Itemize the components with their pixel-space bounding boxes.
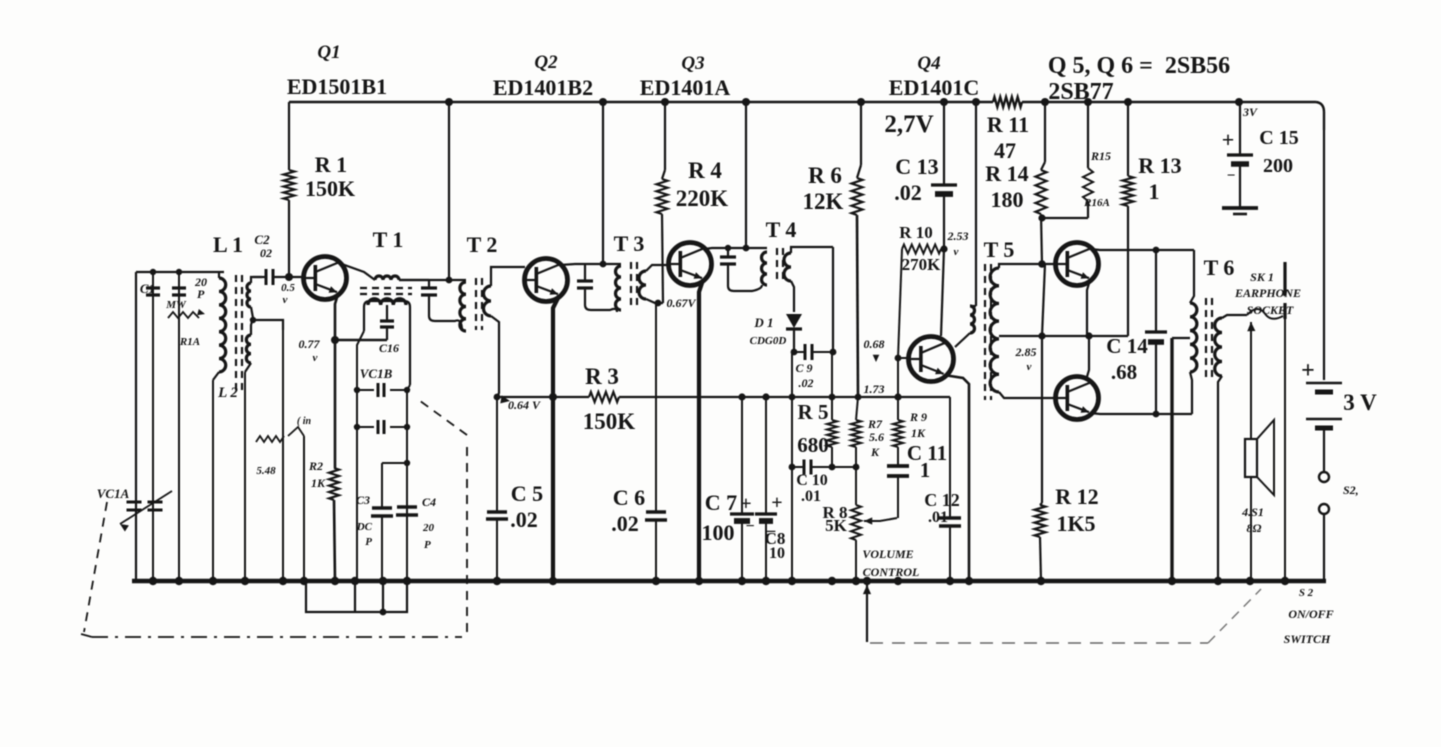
top supply bus	[289, 101, 993, 103]
wire T2 sec to C5	[494, 394, 501, 401]
battery 3V	[1323, 130, 1325, 380]
transistor Q1	[304, 257, 347, 300]
svg-text:R 6: R 6	[808, 163, 842, 188]
T6 secondary coil	[1215, 318, 1222, 376]
T6 primary coil	[1190, 250, 1194, 303]
wire R10 to Q4 base	[898, 249, 902, 358]
T5 center tap	[999, 335, 1042, 337]
svg-text:SK 1: SK 1	[1250, 270, 1274, 284]
svg-text:R 1: R 1	[315, 152, 347, 177]
resistor R6 branch	[860, 102, 862, 165]
wire R13 to center tap	[1042, 335, 1128, 337]
Q5 emitter wire	[1087, 280, 1090, 336]
svg-text:T 1: T 1	[373, 227, 404, 252]
svg-text:S 2: S 2	[1299, 587, 1314, 599]
svg-text:3V: 3V	[1242, 105, 1258, 119]
resistor R4 branch	[664, 102, 666, 170]
svg-text:−: −	[1227, 168, 1236, 184]
svg-text:R7: R7	[867, 417, 883, 431]
svg-text:.01: .01	[801, 488, 821, 505]
volume line (R3 output)	[497, 396, 589, 398]
wire bus to T3	[602, 102, 604, 264]
resistor R11 (in bus)	[993, 97, 1022, 107]
svg-text:T 4: T 4	[766, 217, 797, 242]
wire bus to T5 primary	[975, 102, 977, 306]
svg-text:ED1501B1: ED1501B1	[287, 74, 387, 99]
resistor R1	[284, 170, 295, 200]
svg-text:12K: 12K	[803, 189, 844, 214]
svg-text:v: v	[1027, 361, 1032, 373]
T3 primary coil	[616, 266, 622, 310]
svg-text:Q3: Q3	[681, 53, 704, 74]
svg-text:D 1: D 1	[753, 315, 773, 330]
svg-text:C 15: C 15	[1259, 127, 1298, 149]
Q1 emitter tap wire	[335, 339, 387, 342]
capacitor C4	[397, 505, 417, 508]
resistor R15 (hand drawn)	[1087, 102, 1089, 168]
svg-text:0.77: 0.77	[299, 337, 321, 351]
wire bus to T4	[745, 102, 747, 248]
svg-text:SWITCH: SWITCH	[1284, 632, 1331, 646]
resistor R13 branch	[1127, 102, 1129, 176]
R8 wiper	[864, 517, 872, 524]
transistor Q3	[669, 243, 712, 286]
wire top bus to T2	[448, 102, 450, 280]
T1 secondary	[364, 301, 410, 331]
resistor R9	[893, 420, 903, 447]
wire R14 node down	[1042, 264, 1045, 336]
switch S2	[1319, 472, 1329, 482]
capacitor C5	[487, 510, 507, 513]
Q6 emitter wire	[1086, 336, 1089, 380]
svg-text:.01: .01	[928, 509, 948, 526]
T2 primary cap	[428, 280, 430, 287]
svg-text:K: K	[870, 445, 880, 459]
svg-text:EARPHONE: EARPHONE	[1234, 286, 1301, 300]
svg-text:+: +	[771, 492, 782, 514]
T3 core	[630, 262, 632, 308]
svg-text:P: P	[424, 539, 431, 551]
svg-text:R 9: R 9	[909, 410, 927, 424]
capacitor C2	[253, 276, 266, 278]
resistor R14 branch	[1044, 102, 1046, 162]
svg-text:ED1401A: ED1401A	[640, 75, 731, 100]
svg-text:1.73: 1.73	[864, 382, 885, 396]
Q1 emitter down	[335, 294, 338, 468]
svg-text:C16: C16	[379, 341, 399, 355]
wire D1 node down	[791, 352, 793, 467]
svg-text:R 5: R 5	[798, 400, 829, 424]
T5 primary coil	[970, 306, 975, 333]
transistor Q2	[525, 259, 568, 302]
T4 core	[776, 248, 778, 284]
MW tuning arrow	[168, 312, 199, 318]
transistor Q5	[1056, 243, 1099, 286]
svg-text:ON/OFF: ON/OFF	[1288, 607, 1333, 621]
svg-text:C2: C2	[254, 232, 270, 247]
svg-text:R 12: R 12	[1055, 484, 1098, 509]
T2 core	[475, 278, 477, 330]
Q4 emitter wire	[944, 375, 969, 581]
T4 secondary coil	[784, 253, 791, 281]
svg-text:.02: .02	[799, 376, 814, 390]
node bracket to C3	[382, 462, 407, 464]
svg-text:1K5: 1K5	[1056, 511, 1095, 536]
bottom ground bus	[132, 579, 1326, 584]
svg-text:C 12: C 12	[924, 490, 960, 510]
svg-text:20: 20	[422, 522, 435, 534]
svg-text:Q2: Q2	[534, 52, 558, 73]
svg-text:0.67V: 0.67V	[666, 296, 696, 310]
T6 core	[1205, 298, 1207, 382]
svg-text:R2: R2	[308, 459, 323, 473]
svg-text:100: 100	[702, 520, 735, 545]
svg-text:+: +	[1301, 358, 1315, 384]
Q5 collector wire	[1090, 249, 1156, 250]
C15 ground	[1222, 206, 1258, 210]
coil L1 secondary lower (L2)	[246, 335, 251, 363]
svg-text:C 13: C 13	[895, 154, 938, 179]
svg-text:CONTROL: CONTROL	[863, 565, 920, 579]
svg-text:200: 200	[1263, 155, 1293, 177]
svg-text:S2,: S2,	[1343, 483, 1359, 497]
svg-text:4.S1: 4.S1	[1241, 505, 1264, 519]
svg-text:2.53: 2.53	[947, 229, 969, 243]
svg-text:VOLUME: VOLUME	[862, 547, 913, 561]
capacitor C13 branch	[943, 102, 945, 184]
resistor R8 volume pot	[855, 467, 857, 505]
wire osc node to bus	[303, 436, 305, 581]
capacitor C15	[1239, 102, 1241, 154]
T4 primary coil	[762, 252, 768, 285]
Q6 collector wire	[1090, 413, 1156, 414]
resistor R5	[829, 394, 836, 401]
volume dashed linkage	[866, 581, 868, 642]
svg-text:0.68: 0.68	[864, 337, 885, 351]
capacitor C12	[949, 397, 951, 517]
svg-text:R15: R15	[1090, 149, 1111, 163]
svg-text:C 7: C 7	[705, 490, 737, 515]
svg-text:R 11: R 11	[987, 112, 1029, 137]
svg-text:47: 47	[994, 138, 1016, 163]
svg-text:T 5: T 5	[984, 237, 1015, 262]
svg-text:( in: ( in	[297, 416, 312, 427]
svg-text:T 2: T 2	[467, 232, 498, 257]
svg-text:ED1401B2: ED1401B2	[493, 75, 593, 100]
capacitor C3	[381, 463, 383, 508]
coil L1 secondary upper	[247, 283, 251, 307]
svg-text:R 4: R 4	[688, 158, 722, 183]
svg-text:v: v	[954, 246, 959, 258]
svg-text:.02: .02	[894, 180, 922, 205]
svg-text:R 13: R 13	[1138, 153, 1181, 178]
diode D1	[786, 314, 802, 328]
svg-text:P: P	[365, 536, 372, 548]
svg-text:C1: C1	[140, 281, 155, 296]
svg-text:1K: 1K	[311, 476, 326, 490]
svg-text:2.85: 2.85	[1015, 345, 1037, 359]
capacitor C7	[741, 397, 743, 513]
T6 center tap	[1172, 337, 1190, 339]
capacitor C8	[765, 397, 767, 513]
transistor Q6	[1056, 377, 1099, 420]
svg-text:CDG0D: CDG0D	[750, 335, 787, 347]
svg-text:680: 680	[797, 433, 829, 457]
resistor R2	[329, 468, 339, 500]
svg-text:1: 1	[920, 458, 931, 482]
svg-text:220K: 220K	[676, 186, 729, 211]
T2 primary coil	[460, 282, 466, 331]
wire T3 sec to C6	[655, 303, 657, 512]
T5 secondary coil	[990, 268, 999, 392]
svg-text:0.64 V: 0.64 V	[508, 398, 541, 412]
transistor Q4	[909, 337, 954, 382]
svg-text:3 V: 3 V	[1343, 390, 1377, 415]
svg-text:+: +	[1222, 127, 1235, 152]
svg-text:R 14: R 14	[985, 161, 1028, 186]
svg-text:5.48: 5.48	[256, 465, 276, 477]
wire R1 branch	[288, 102, 290, 170]
svg-text:R 3: R 3	[585, 364, 619, 389]
capacitor C16	[386, 305, 388, 320]
svg-text:Q1: Q1	[317, 42, 340, 63]
resistor R3	[589, 392, 619, 402]
T2 secondary coil	[484, 286, 492, 316]
svg-text:+: +	[740, 493, 751, 515]
svg-text:C 5: C 5	[511, 481, 543, 506]
T4 primary cap	[727, 248, 729, 256]
svg-text:R1A: R1A	[179, 336, 200, 348]
resistor R12	[1041, 336, 1043, 503]
svg-text:VC1A: VC1A	[97, 486, 130, 501]
Q1 collector to T1	[339, 263, 375, 280]
svg-text:180: 180	[991, 187, 1024, 212]
coil L1 primary	[218, 272, 220, 278]
capacitor C9	[791, 349, 798, 356]
svg-text:1K: 1K	[911, 426, 926, 440]
svg-text:2SB77: 2SB77	[1048, 79, 1113, 105]
svg-text:2,7V: 2,7V	[884, 111, 933, 138]
svg-text:MW: MW	[165, 299, 187, 311]
svg-text:R16A: R16A	[1083, 197, 1110, 209]
svg-text:5K: 5K	[825, 516, 848, 535]
svg-text:C4: C4	[422, 495, 436, 509]
svg-text:VC1B: VC1B	[360, 366, 393, 381]
svg-text:T 6: T 6	[1204, 255, 1235, 280]
svg-text:8Ω: 8Ω	[1247, 521, 1262, 535]
gang dashed linkage left	[84, 502, 107, 632]
capacitor C6	[646, 510, 666, 513]
svg-text:v: v	[313, 352, 318, 364]
svg-text:P: P	[197, 287, 205, 301]
svg-text:T 3: T 3	[614, 231, 645, 256]
antenna frame wire	[136, 271, 224, 273]
T3 secondary coil	[639, 271, 646, 299]
capacitor C1	[152, 272, 154, 581]
Q3 collector wire	[704, 248, 728, 249]
osc feedback squiggle	[256, 436, 284, 442]
capacitor C14	[1155, 250, 1157, 331]
svg-text:v: v	[283, 294, 288, 306]
speaker LS1	[1245, 439, 1257, 477]
L1 core	[235, 275, 237, 392]
svg-text:270K: 270K	[902, 255, 942, 274]
capacitor C11	[897, 447, 899, 466]
svg-text:C 9: C 9	[795, 361, 812, 375]
svg-text:Q4: Q4	[917, 53, 940, 74]
T5 core	[984, 264, 986, 400]
svg-text:C 10: C 10	[796, 472, 828, 489]
svg-text:150K: 150K	[583, 409, 636, 434]
svg-text:10: 10	[769, 545, 785, 562]
subloop below bus	[306, 581, 407, 612]
Q2 emitter thick	[553, 296, 559, 581]
svg-text:1: 1	[1149, 179, 1160, 204]
svg-text:Q 5, Q 6 = 2SB56: Q 5, Q 6 = 2SB56	[1048, 53, 1230, 79]
wire Q4 base node down	[897, 358, 899, 397]
svg-text:L 1: L 1	[213, 232, 243, 257]
svg-text:DC: DC	[356, 521, 373, 533]
svg-text:.02: .02	[510, 507, 538, 532]
resistor R7	[851, 420, 861, 447]
Q3 emitter thick	[699, 280, 703, 581]
capacitor 20P	[178, 272, 180, 581]
svg-text:C3: C3	[356, 493, 370, 507]
T1 core	[360, 287, 412, 289]
svg-text:.02: .02	[611, 511, 639, 536]
svg-text:R 10: R 10	[899, 223, 933, 242]
svg-text:L 2: L 2	[217, 385, 238, 401]
svg-text:C 14: C 14	[1106, 334, 1148, 358]
svg-text:.68: .68	[1111, 360, 1137, 384]
capacitor C10	[789, 464, 796, 471]
svg-text:150K: 150K	[305, 176, 355, 201]
svg-text:ED1401C: ED1401C	[889, 75, 979, 100]
svg-text:02: 02	[260, 246, 272, 260]
T3 primary cap	[584, 264, 586, 280]
resistor R10	[902, 245, 941, 254]
svg-text:5.6: 5.6	[869, 430, 884, 444]
Q2 collector wire	[560, 264, 585, 265]
svg-text:0.5: 0.5	[281, 282, 295, 294]
svg-text:−: −	[745, 518, 754, 535]
socket contact	[1283, 303, 1286, 319]
svg-text:C 6: C 6	[613, 485, 645, 510]
